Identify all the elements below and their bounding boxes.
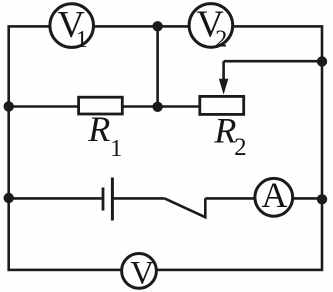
battery short plate bbox=[102, 188, 105, 211]
junction node right-wiper row bbox=[317, 56, 327, 66]
svg-text:2: 2 bbox=[215, 26, 227, 52]
junction node left-R1 row bbox=[4, 101, 14, 111]
wire R1 row horizontal bbox=[9, 105, 201, 108]
junction node top center bbox=[152, 21, 162, 31]
ammeter A circle bbox=[255, 178, 293, 216]
junction node right-ammeter row bbox=[317, 194, 327, 204]
svg-text:R: R bbox=[213, 110, 236, 150]
svg-text:R: R bbox=[87, 109, 110, 149]
junction node R1-R2 row center bbox=[152, 102, 162, 112]
wire R2 wiper vertical drop bbox=[222, 61, 225, 81]
svg-text:2: 2 bbox=[234, 134, 247, 161]
label V2 bbox=[196, 3, 227, 52]
svg-text:A: A bbox=[261, 175, 287, 215]
wire outer loop (top/right/bottom/left) bbox=[9, 26, 322, 270]
rheostat R2 wiper arrowhead bbox=[219, 79, 228, 95]
voltmeter V1 circle bbox=[50, 4, 94, 48]
wire switch to right side segment bbox=[205, 197, 322, 200]
label R1 bbox=[87, 109, 122, 162]
switch S blade and post bbox=[165, 198, 206, 217]
voltmeter V circle bbox=[122, 254, 157, 289]
wire battery to switch segment bbox=[112, 197, 164, 200]
resistor R1 box bbox=[79, 97, 123, 114]
wire battery row left segment bbox=[9, 197, 103, 200]
svg-text:1: 1 bbox=[76, 27, 88, 53]
junction node left-battery row bbox=[4, 193, 14, 203]
wire R2 wiper horizontal bbox=[224, 60, 322, 63]
label V1 bbox=[57, 4, 87, 53]
svg-text:1: 1 bbox=[110, 136, 122, 162]
wire middle vertical from top node to R1-R2 node bbox=[156, 26, 159, 106]
battery long plate bbox=[111, 178, 114, 221]
label R2 bbox=[213, 110, 246, 160]
rheostat R2 box bbox=[200, 96, 244, 114]
svg-text:V: V bbox=[130, 256, 154, 292]
voltmeter V2 circle bbox=[189, 4, 233, 48]
